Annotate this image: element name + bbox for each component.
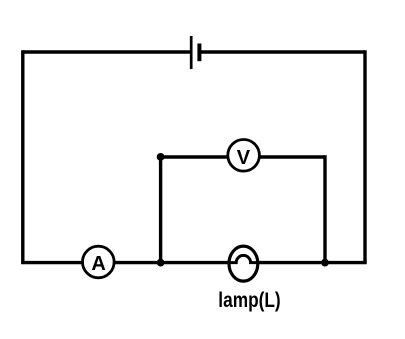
lamp L1 filament lead and bump (229, 255, 258, 262)
voltmeter V1 circle (228, 140, 260, 172)
ammeter A1 circle (83, 246, 115, 278)
node dot: bottom wire left junction (157, 259, 165, 267)
node dot: bottom wire right junction (321, 259, 329, 267)
lamp L1 bulb outline (229, 246, 258, 281)
wire: bottom horizontal (21, 261, 367, 264)
battery cell B1 short plate (negative) (197, 44, 201, 62)
svg-text:lamp(L): lamp(L) (218, 288, 280, 312)
wire: voltmeter branch horizontal (161, 155, 325, 158)
wire: right side vertical (363, 50, 366, 262)
svg-text:V: V (237, 147, 251, 169)
wire: left side vertical (21, 50, 24, 262)
wire: top-right segment (battery right lead) (201, 50, 365, 53)
wire: inner left vertical (node to bottom) (159, 157, 162, 263)
node dot: voltmeter branch upper-left (157, 153, 165, 161)
wire: inner right vertical (323, 155, 326, 262)
svg-text:A: A (91, 253, 105, 275)
wire: top-left segment (battery left lead) (23, 50, 191, 53)
battery cell B1 long plate (positive) (190, 36, 193, 69)
